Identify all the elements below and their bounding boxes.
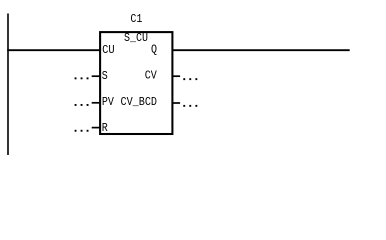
svg-text:CV: CV bbox=[145, 69, 158, 83]
ellipsis operand placeholder: PV input bbox=[75, 104, 89, 106]
wire: rail to CU input bbox=[7, 49, 100, 51]
svg-text:Q: Q bbox=[151, 43, 157, 57]
svg-text:C1: C1 bbox=[130, 12, 142, 26]
ellipsis operand placeholder: S input bbox=[75, 77, 89, 79]
left power rail bbox=[7, 14, 9, 156]
svg-text:CV_BCD: CV_BCD bbox=[121, 95, 158, 109]
svg-text:R: R bbox=[102, 121, 108, 135]
wire stub: R input bbox=[92, 127, 100, 129]
ellipsis operand placeholder: CV output bbox=[183, 78, 197, 80]
wire: Q output to right bbox=[172, 49, 349, 51]
ellipsis operand placeholder: R input bbox=[75, 130, 89, 132]
wire stub: PV input bbox=[92, 102, 100, 104]
svg-text:S_CU: S_CU bbox=[124, 31, 148, 45]
svg-text:S: S bbox=[102, 69, 108, 83]
wire stub: CV_BCD output bbox=[172, 102, 180, 104]
svg-text:PV: PV bbox=[102, 95, 115, 109]
svg-text:CU: CU bbox=[102, 43, 115, 57]
counter function block C1 (S_CU) box outline bbox=[100, 32, 172, 134]
wire stub: S input bbox=[92, 75, 100, 77]
wire stub: CV output bbox=[172, 75, 180, 77]
ellipsis operand placeholder: CV_BCD output bbox=[183, 105, 197, 107]
